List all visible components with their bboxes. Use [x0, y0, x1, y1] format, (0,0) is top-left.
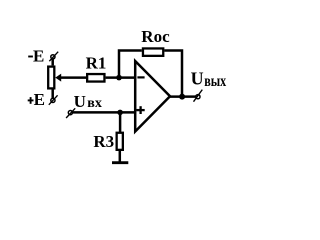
wire Uvx input — [73, 111, 136, 114]
potentiometer body — [48, 67, 54, 89]
resistor R3 — [117, 133, 123, 150]
resistor R1 — [87, 74, 104, 82]
svg-text:E: E — [33, 47, 44, 66]
terminal Uvyx — [194, 90, 203, 102]
wire pot bottom stub — [51, 90, 54, 99]
terminal +E — [49, 95, 58, 105]
svg-text:U: U — [191, 69, 204, 89]
wire junction to R3 — [119, 112, 122, 132]
pin minus sign — [137, 76, 144, 78]
wire feedback left up — [119, 51, 142, 78]
svg-text:R3: R3 — [93, 132, 114, 151]
op-amp U1 — [135, 61, 170, 132]
wire R1 to op-amp inverting input — [106, 76, 136, 79]
wiper arrow — [55, 74, 61, 82]
svg-text:E: E — [34, 90, 45, 109]
label +E — [28, 90, 45, 109]
node C junction dot output — [179, 94, 185, 100]
ground — [112, 161, 128, 164]
wire wiper to R1 — [60, 76, 87, 79]
terminal Uvx — [66, 108, 75, 118]
wire pot top stub — [51, 59, 54, 66]
wire output — [169, 95, 196, 98]
svg-text:U: U — [74, 92, 86, 111]
resistor Roc — [143, 48, 163, 55]
svg-text:вх: вх — [87, 96, 102, 111]
wire R3 to ground — [119, 151, 122, 162]
svg-text:R1: R1 — [86, 53, 107, 72]
svg-text:Rос: Rос — [141, 27, 170, 46]
node A junction dot inverting input — [116, 75, 122, 81]
pin plus sign — [137, 106, 145, 114]
wire feedback right down — [164, 51, 182, 97]
node B junction dot noninverting input — [117, 110, 123, 116]
svg-text:вых: вых — [204, 73, 226, 90]
terminal -E — [49, 52, 58, 62]
label -E — [28, 47, 44, 66]
